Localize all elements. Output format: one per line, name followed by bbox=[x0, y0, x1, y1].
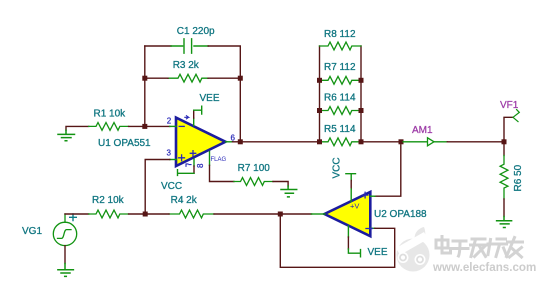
plus mark U2 bbox=[362, 192, 368, 198]
wire: R3 left bbox=[145, 77, 168, 79]
svg-text:R4 2k: R4 2k bbox=[171, 195, 198, 206]
wire VF1 probe bbox=[504, 117, 513, 142]
resistor R7 100 bbox=[234, 178, 273, 186]
wire U2+ input bbox=[375, 145, 401, 196]
svg-text:www.elecfans.com: www.elecfans.com bbox=[432, 261, 536, 274]
junction R3 left bbox=[142, 76, 147, 81]
plus mark pin3 bbox=[179, 155, 185, 161]
resistor stack left rail bbox=[319, 46, 321, 142]
U2 minus input stub bbox=[370, 227, 375, 229]
wire: C1 top wire left bbox=[145, 45, 171, 47]
svg-text:R6 50: R6 50 bbox=[513, 164, 524, 191]
U2 plus input stub bbox=[370, 195, 375, 197]
wire AM1 to VF1 node bbox=[447, 141, 504, 143]
junction R4/U2out/feedback bbox=[278, 212, 283, 217]
wire: left rail C1/R3 to pin2 bbox=[144, 46, 146, 126]
svg-text:VEE: VEE bbox=[200, 93, 220, 104]
pin 2 stub bbox=[170, 125, 177, 127]
watermark logo bbox=[396, 227, 430, 272]
wire R6 to ground bbox=[503, 199, 505, 217]
svg-text:FLAG: FLAG bbox=[211, 157, 227, 163]
wire: R3 right bbox=[208, 77, 240, 79]
pin 8 FLAG stub bbox=[209, 152, 211, 166]
watermark chinese text bbox=[436, 237, 524, 259]
ground (R7) bbox=[281, 186, 297, 197]
resistor R6 50 bbox=[500, 156, 508, 200]
svg-text:R1 10k: R1 10k bbox=[94, 108, 127, 119]
junction R3 right bbox=[238, 76, 243, 81]
junction U2+ tap bbox=[399, 139, 404, 144]
svg-text:AM1: AM1 bbox=[412, 125, 433, 136]
watermark url text bbox=[432, 261, 538, 275]
svg-text:VEE: VEE bbox=[368, 247, 388, 258]
svg-text:2: 2 bbox=[167, 117, 172, 126]
resistor R3 bbox=[168, 74, 208, 82]
probe tip VF1 bbox=[513, 110, 519, 122]
wire node to R4 bbox=[145, 213, 169, 215]
minus mark pin2 bbox=[179, 125, 184, 127]
junction R7 left bbox=[317, 78, 322, 83]
wire node to R6 50 bbox=[503, 142, 505, 156]
svg-text:+V: +V bbox=[350, 202, 359, 211]
svg-text:U1 OPA551: U1 OPA551 bbox=[98, 138, 151, 149]
VCC power pin U2 bbox=[346, 174, 356, 202]
resistor R8 112 bbox=[320, 42, 362, 50]
VEE power pin U1 bbox=[194, 106, 202, 125]
wire node to U2 output bbox=[280, 213, 311, 215]
op-amp U1 OPA551 bbox=[176, 118, 226, 166]
svg-text:C1 220p: C1 220p bbox=[177, 26, 215, 37]
resistor R1 bbox=[89, 123, 129, 131]
svg-text:R7 112: R7 112 bbox=[324, 62, 356, 73]
wire pin8 down to R7 bbox=[210, 165, 234, 181]
svg-text:VCC: VCC bbox=[332, 157, 343, 178]
junction pin6 rail bbox=[238, 139, 243, 144]
wire R7 to ground bbox=[273, 182, 288, 187]
svg-text:VF1: VF1 bbox=[500, 100, 519, 111]
svg-text:R5 114: R5 114 bbox=[324, 124, 356, 135]
trim mark bbox=[186, 164, 191, 166]
junction R6 left bbox=[317, 108, 322, 113]
wire VG1 to R2 bbox=[65, 213, 89, 215]
junction R5 left bbox=[317, 139, 322, 144]
wire stack to AM1 node bbox=[361, 141, 403, 143]
svg-text:3: 3 bbox=[167, 149, 172, 158]
wire: input ground to R1 bbox=[66, 126, 89, 130]
junction R6 right bbox=[359, 108, 364, 113]
capacitor C1 bbox=[171, 39, 208, 53]
ground (VG1) bbox=[58, 264, 74, 277]
wire R4 to U2 node bbox=[214, 213, 280, 215]
pin 6 stub bbox=[226, 141, 233, 143]
wire pin6 to rail bbox=[233, 141, 241, 143]
svg-text:6: 6 bbox=[231, 133, 236, 142]
junction R5 right bbox=[359, 139, 364, 144]
junction node pin2/R3 rail bbox=[142, 124, 147, 129]
op-amp U2 OPA188 bbox=[325, 192, 371, 236]
wire R2 to node bbox=[129, 213, 146, 215]
ground (R6 50) bbox=[497, 217, 512, 228]
resistor R5 114 bbox=[320, 138, 362, 146]
svg-text:R6 114: R6 114 bbox=[324, 92, 356, 103]
svg-text:8: 8 bbox=[196, 163, 205, 168]
wire node up to pin3 bbox=[145, 160, 170, 215]
svg-text:R8 112: R8 112 bbox=[324, 29, 356, 40]
minus mark U2 bbox=[366, 228, 372, 230]
plus mark V+ bbox=[190, 151, 195, 156]
svg-text:R2 10k: R2 10k bbox=[92, 195, 125, 206]
junction R2/R4/pin3 bbox=[143, 212, 148, 217]
junction R7 right bbox=[359, 78, 364, 83]
wire: C1 top wire right bbox=[208, 46, 240, 142]
svg-text:U2 OPA188: U2 OPA188 bbox=[374, 209, 427, 220]
resistor R4 bbox=[169, 210, 214, 218]
U2 output stub bbox=[312, 213, 326, 215]
source VG1 bbox=[53, 214, 76, 246]
arrow mark near VEE pin bbox=[185, 116, 189, 119]
resistor R7 112 bbox=[320, 76, 362, 84]
junction VF1/R6 bbox=[502, 139, 507, 144]
ground (input left) bbox=[58, 130, 75, 141]
VEE power pin U2 bbox=[348, 226, 360, 257]
VCC power pin U1 bbox=[178, 159, 195, 175]
wire: R1 to U1 pin2 bbox=[129, 125, 170, 127]
wire output line U1 to stack bbox=[240, 141, 319, 143]
wire feedback loop bbox=[280, 214, 394, 267]
resistor stack right rail bbox=[360, 46, 362, 142]
resistor R6 114 bbox=[320, 107, 362, 115]
pin 3 stub bbox=[170, 159, 177, 161]
wire VG1 to ground bbox=[64, 246, 66, 264]
svg-text:VG1: VG1 bbox=[22, 226, 42, 237]
plus mark VG1 bbox=[70, 214, 77, 221]
svg-text:VCC: VCC bbox=[161, 181, 182, 192]
svg-text:R3 2k: R3 2k bbox=[173, 60, 200, 71]
ammeter AM1 bbox=[403, 138, 447, 146]
svg-text:R7 100: R7 100 bbox=[238, 163, 271, 174]
resistor R2 bbox=[89, 210, 129, 218]
